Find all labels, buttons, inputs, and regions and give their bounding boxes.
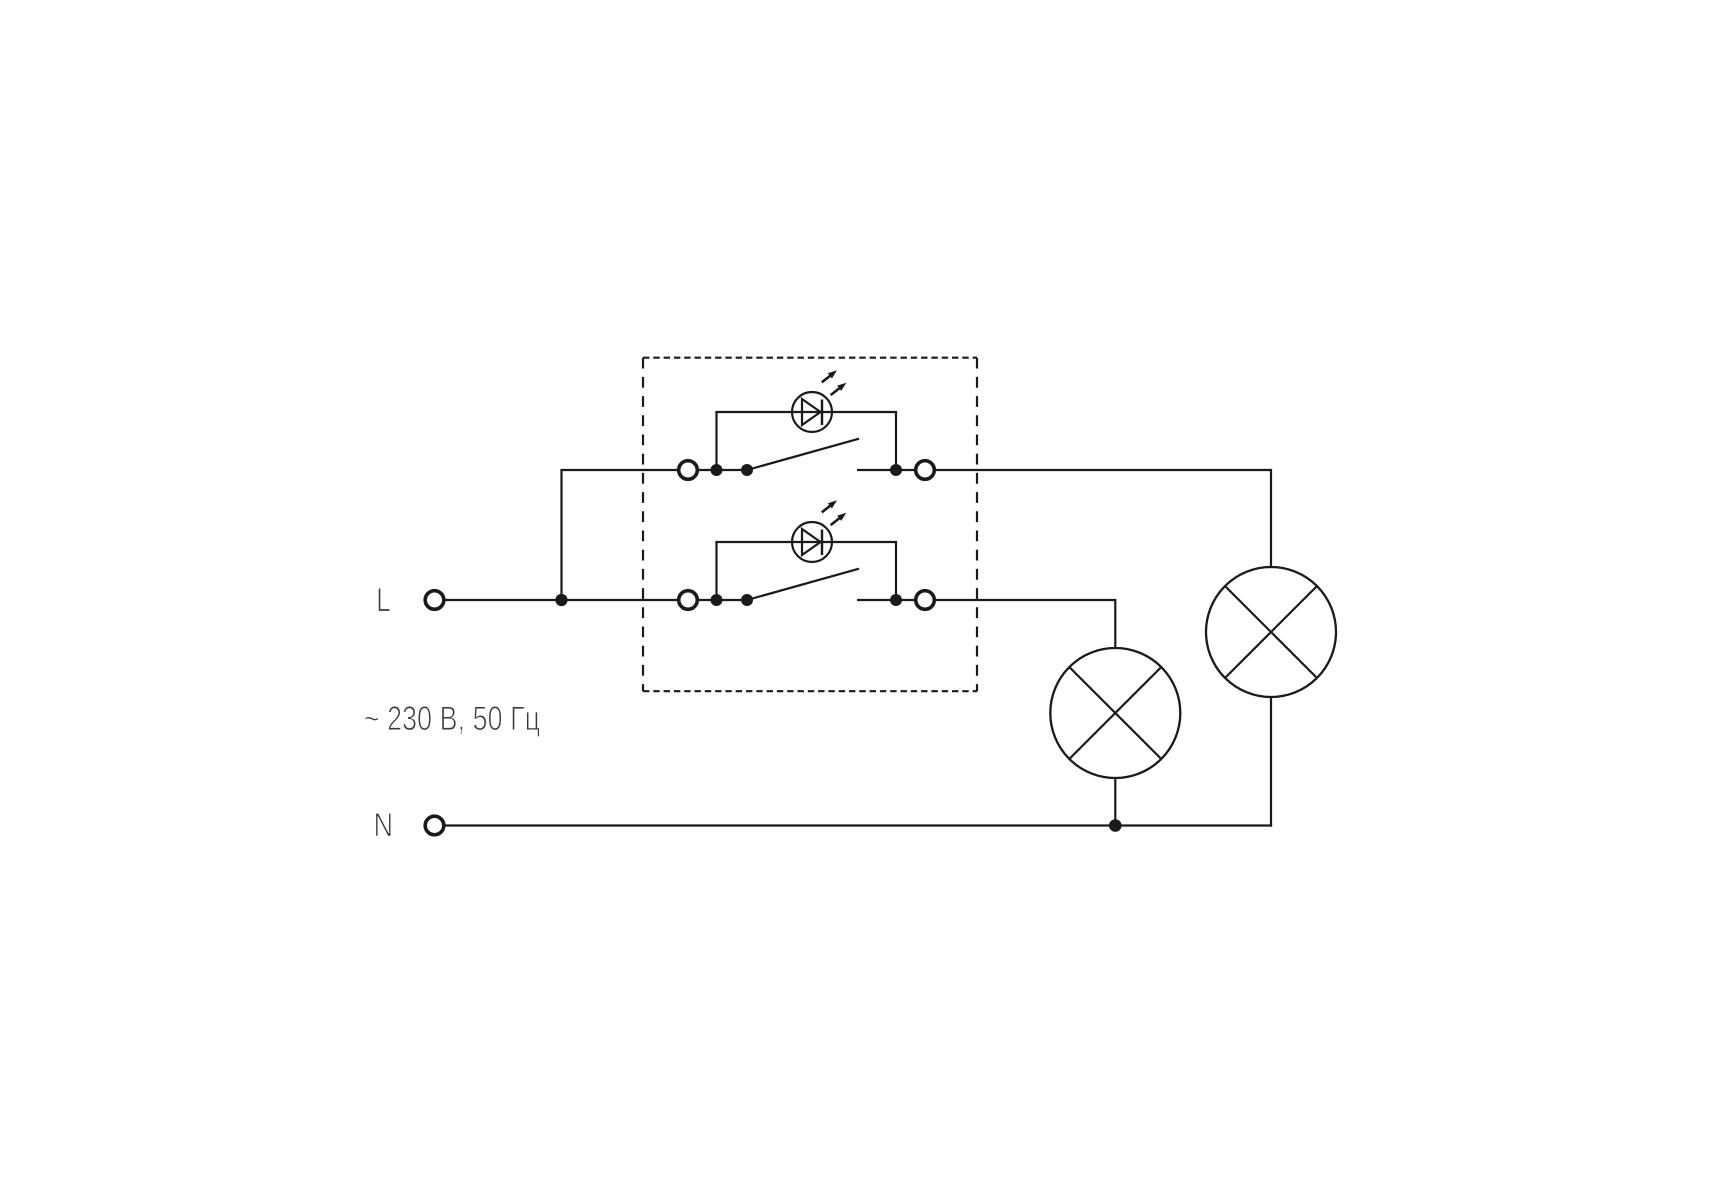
LED2 arrow 1 shaft xyxy=(822,504,832,512)
LED1 circle xyxy=(792,392,832,432)
wire LED2 branch right vertical xyxy=(895,542,897,600)
lamp E2 cross xyxy=(1069,667,1161,759)
LED1 arrow 2 shaft xyxy=(831,387,841,395)
wire LED1 branch horizontal xyxy=(715,411,897,413)
wire switch1 output to lamp E1 xyxy=(936,470,1272,567)
wire switch2 input stub xyxy=(698,599,748,601)
switch unit dashed box bottom edge xyxy=(643,690,977,692)
terminal switch2 output xyxy=(916,591,935,610)
terminal N xyxy=(425,816,444,835)
wire LED1 branch left vertical xyxy=(715,412,717,470)
node L branch junction xyxy=(555,594,567,606)
node switch2 dot A xyxy=(711,594,723,606)
node switch2 output dot xyxy=(890,594,902,606)
switch unit dashed box right edge xyxy=(976,358,978,692)
wire lamp E1 to N xyxy=(1270,697,1272,827)
lamp E1 circle xyxy=(1206,567,1336,697)
terminal switch1 output xyxy=(916,461,935,480)
label L xyxy=(378,588,390,611)
LED1 arrow 1 head xyxy=(828,370,837,378)
node N junction xyxy=(1109,819,1122,832)
label N xyxy=(376,813,391,836)
node switch1 dot A xyxy=(711,464,723,476)
LED1 arrow 2 head xyxy=(837,383,846,391)
wire lamp E2 to N xyxy=(1114,778,1116,826)
LED1 cathode bar xyxy=(821,400,823,426)
wire switch2 output to lamp E2 xyxy=(936,600,1116,648)
terminal L xyxy=(425,591,444,610)
wire L horizontal xyxy=(445,599,678,601)
LED2 cathode bar xyxy=(821,530,823,556)
LED1 arrow 1 shaft xyxy=(822,374,832,382)
lamp E1 cross xyxy=(1225,586,1317,678)
LED2 arrow 1 head xyxy=(828,500,837,508)
wire LED1 branch right vertical xyxy=(895,412,897,470)
wire switch1 input stub xyxy=(698,469,748,471)
wire N horizontal xyxy=(445,824,1272,826)
switch S2 blade xyxy=(747,569,859,600)
wire branch top horizontal xyxy=(560,469,678,471)
LED2 arrow 2 head xyxy=(837,513,846,521)
wire switch2 output stub xyxy=(857,599,915,601)
switch unit dashed box top edge xyxy=(643,357,977,359)
node switch1 output dot xyxy=(890,464,902,476)
wire LED2 branch left vertical xyxy=(715,542,717,600)
LED2 circle xyxy=(792,522,832,562)
switch unit dashed box left edge xyxy=(642,358,644,692)
node switch1 pivot dot xyxy=(741,464,753,476)
terminal switch2 input xyxy=(679,591,698,610)
lamp E2 circle xyxy=(1050,648,1180,778)
LED1 diode triangle xyxy=(802,399,821,425)
node switch2 pivot dot xyxy=(741,594,753,606)
LED2 arrow 2 shaft xyxy=(831,517,841,525)
wire LED2 branch horizontal xyxy=(715,541,897,543)
wire switch1 output stub xyxy=(857,469,915,471)
LED2 diode triangle xyxy=(802,529,821,555)
label voltage rating xyxy=(365,706,540,737)
switch S1 blade xyxy=(747,439,859,470)
wire branch vertical xyxy=(560,470,562,601)
terminal switch1 input xyxy=(679,461,698,480)
